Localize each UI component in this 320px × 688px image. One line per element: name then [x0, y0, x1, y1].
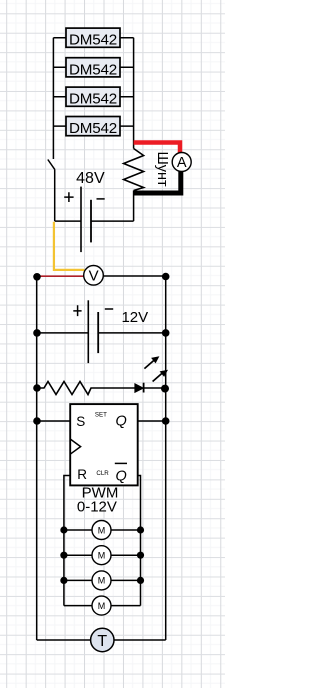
voltmeter V1 [84, 266, 104, 286]
wire dark red to voltmeter [37, 275, 84, 277]
node resistor row left [33, 384, 41, 392]
motor M4 [92, 596, 111, 615]
thermometer T1 [91, 628, 114, 651]
wire Q output [138, 420, 166, 422]
switch blade [48, 160, 55, 170]
svg-text:M: M [98, 551, 106, 561]
wire right rail down to shunt [133, 38, 135, 149]
node S input [33, 417, 41, 425]
LED D1 [135, 356, 168, 392]
svg-text:M: M [98, 601, 106, 611]
node LED row right [161, 385, 169, 393]
wire Qbar output drop [138, 476, 141, 606]
svg-text:T: T [97, 633, 107, 650]
wire yellow battery minus to voltmeter [54, 222, 85, 270]
right rail [165, 277, 167, 641]
svg-text:0-12V: 0-12V [77, 499, 117, 516]
svg-text:M: M [98, 525, 106, 535]
node motor rows left [60, 526, 67, 533]
bottom wire [37, 639, 91, 641]
svg-text:DM542: DM542 [69, 32, 117, 49]
wire switch to 48V battery [54, 170, 56, 221]
svg-text:M: M [98, 576, 106, 586]
driver box DM542 #3 [66, 87, 120, 108]
node Q output [162, 417, 170, 425]
wire R input drop [64, 476, 70, 606]
svg-text:V: V [89, 268, 99, 285]
node motor rows right [137, 526, 144, 533]
node 12V row right [162, 329, 170, 337]
svg-text:CLR: CLR [96, 470, 109, 477]
flip-flop U1 [70, 404, 138, 485]
wire stubs DM542 left side [53, 38, 66, 126]
node V row left [33, 273, 41, 281]
svg-text:S: S [76, 414, 85, 429]
motor M3 [92, 571, 111, 590]
node 12V row left [33, 329, 41, 337]
wire thick black from shunt bottom to ammeter [134, 172, 181, 194]
LED arrow 2 [153, 373, 162, 381]
svg-text:DM542: DM542 [69, 91, 117, 108]
svg-text:48V: 48V [76, 170, 105, 187]
driver box DM542 #1 [66, 28, 120, 49]
motor M2 [92, 546, 111, 565]
wire left vertical from DM542 drivers to switch [52, 38, 54, 159]
svg-text:Q: Q [116, 469, 127, 485]
svg-text:12V: 12V [121, 309, 148, 326]
battery 48V [55, 187, 134, 253]
svg-text:A: A [177, 155, 187, 171]
svg-text:R: R [77, 467, 87, 482]
motor M1 [92, 521, 111, 540]
resistor shunt (vertical zigzag) [124, 149, 144, 191]
wire stubs DM542 right side [120, 38, 134, 126]
wire voltmeter to right rail [103, 275, 165, 277]
node V row right [162, 273, 170, 281]
wire below shunt to battery [133, 191, 135, 222]
svg-text:Шунт: Шунт [154, 152, 170, 188]
resistor (horizontal zigzag) [37, 382, 135, 395]
wire thick red to ammeter [134, 143, 180, 153]
driver box DM542 #4 [66, 117, 120, 138]
ammeter A1 [172, 153, 191, 172]
LED arrow 1 [144, 361, 153, 369]
wire S input [37, 420, 70, 422]
svg-text:DM542: DM542 [69, 120, 117, 137]
battery 12V [37, 300, 166, 363]
svg-text:SET: SET [95, 411, 107, 418]
svg-text:Q: Q [116, 414, 127, 430]
driver box DM542 #2 [66, 58, 120, 79]
motor row wires [64, 530, 141, 606]
svg-text:DM542: DM542 [69, 61, 117, 78]
left rail [36, 277, 38, 640]
